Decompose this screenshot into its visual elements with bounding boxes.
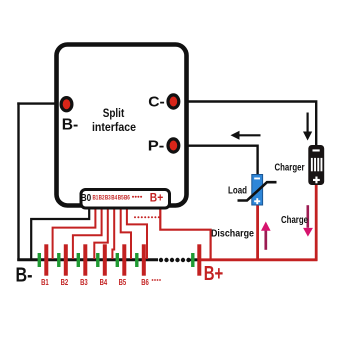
BMS module U1 (split interface box) [57, 45, 187, 206]
dots after cell B6 label [152, 279, 161, 281]
svg-text:B1: B1 [41, 278, 49, 287]
battery cell B2 plates [57, 253, 60, 267]
svg-text:B4: B4 [100, 278, 108, 287]
wire: charger bottom to positive bus [315, 184, 318, 261]
wire: battery negative bus [17, 258, 158, 261]
connector ellipsis dots [132, 196, 142, 198]
svg-text:Charger: Charger [275, 163, 305, 174]
charger plus mark [313, 179, 320, 181]
battery cell B1 plates [38, 253, 41, 267]
wire: sense B5 [121, 209, 131, 260]
battery cell B4 plates [96, 253, 99, 267]
svg-text:B6: B6 [141, 278, 149, 287]
charger vent stripes [311, 158, 323, 171]
battery cell Bn plates (last) [191, 253, 194, 267]
arrow: discharge flow (magenta, up) [264, 230, 267, 250]
svg-text:B0: B0 [81, 193, 92, 204]
wire: left B- rail vertical [17, 102, 19, 261]
wire: sense B2 [73, 209, 102, 260]
svg-text:B3: B3 [80, 278, 88, 287]
svg-text:B+: B+ [150, 191, 163, 205]
load plus mark [254, 200, 260, 202]
battery cell B6 plates [135, 253, 138, 267]
terminal P- (pad) [168, 139, 179, 152]
switch SW1 across load [238, 182, 277, 200]
charger CHG1 body [308, 145, 324, 185]
battery cell B5 plates [116, 253, 119, 267]
svg-text:B2: B2 [61, 278, 69, 287]
wire: load bottom to positive bus [256, 205, 259, 261]
terminal C- (pad) [168, 95, 179, 108]
svg-text:B-: B- [16, 264, 33, 287]
wire: B- terminal to left rail [17, 102, 66, 104]
svg-text:B+: B+ [204, 262, 224, 285]
svg-text:B6: B6 [124, 196, 130, 202]
wire: last cell link [191, 258, 199, 261]
battery cell B3 plates [77, 253, 80, 267]
arrow: charge current into charger (black, down) [307, 113, 309, 133]
wire: B0 pin to negative bus [31, 209, 89, 260]
wire: sense B6 [127, 209, 147, 260]
wire: battery positive bus [200, 258, 318, 261]
svg-text:Load: Load [228, 186, 247, 197]
svg-text:B-: B- [62, 117, 79, 134]
svg-text:C-: C- [148, 93, 165, 110]
svg-text:B5: B5 [119, 278, 127, 287]
load minus mark [254, 178, 260, 180]
svg-text:B4: B4 [111, 196, 117, 202]
svg-text:Split: Split [103, 108, 125, 120]
arrow: charge flow (magenta, down) [306, 205, 309, 228]
dotted continuation under connector [134, 216, 160, 218]
svg-text:P-: P- [148, 138, 165, 155]
wire: sense B3 [94, 209, 108, 260]
terminal B- (pad) [61, 98, 72, 111]
wire: connector B+ to positive bus [160, 198, 210, 260]
wire: sense B1 [53, 209, 96, 260]
charger minus mark [313, 149, 320, 151]
svg-text:Discharge: Discharge [211, 229, 254, 240]
svg-text:Charge: Charge [281, 215, 308, 226]
balance connector J1 [81, 190, 170, 209]
series continuation dots [159, 258, 191, 262]
arrow: discharge current to P- (black, left) [239, 134, 261, 136]
wire: P- to load top [173, 146, 258, 175]
wire: C- to charger top [173, 102, 316, 147]
wire: sense B4 [112, 209, 114, 260]
svg-text:interface: interface [92, 122, 136, 134]
load LD1 body [252, 175, 263, 206]
